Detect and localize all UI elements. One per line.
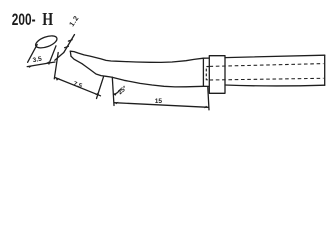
svg-text:H: H bbox=[42, 10, 53, 29]
svg-text:200-: 200- bbox=[12, 11, 36, 29]
svg-text:15: 15 bbox=[155, 98, 163, 105]
